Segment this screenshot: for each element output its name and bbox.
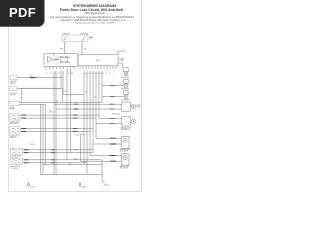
svg-text:DOOR LOCK: DOOR LOCK xyxy=(10,136,19,138)
svg-text:B: B xyxy=(47,73,48,75)
ground mark left xyxy=(28,183,30,187)
trunk wire x70.5 xyxy=(70,69,72,152)
svg-text:G204: G204 xyxy=(104,185,109,187)
wire color labels master sw mid xyxy=(73,115,78,118)
actuator R7 motor xyxy=(123,155,127,159)
svg-text:LO: LO xyxy=(62,73,64,75)
wires to actuator R5 xyxy=(96,119,122,124)
svg-text:SWITCH: SWITCH xyxy=(10,137,16,139)
fuse F1 xyxy=(64,37,67,40)
trunk wire x96 xyxy=(95,71,97,138)
wire color labels sliding sw xyxy=(24,150,29,153)
wire color label comp1 xyxy=(30,77,36,79)
svg-text:DOOR KEY: DOOR KEY xyxy=(122,89,130,91)
svg-text:PDF: PDF xyxy=(9,5,36,20)
trunk wire x56 xyxy=(55,71,57,175)
svg-text:W-B: W-B xyxy=(84,49,87,51)
trunk wire x54 xyxy=(53,71,55,175)
svg-text:G-B: G-B xyxy=(94,97,96,99)
svg-text:DOOR KEY: DOOR KEY xyxy=(122,100,130,102)
actuator R6 motor xyxy=(123,138,127,142)
svg-text:WL: WL xyxy=(51,73,53,75)
svg-text:LOCK SW: LOCK SW xyxy=(11,168,19,170)
wire to actuator R1 xyxy=(118,63,122,68)
wire fuse F1 down to relay xyxy=(64,42,66,54)
door key lock switch R3 circle xyxy=(124,95,128,99)
PDF badge xyxy=(0,0,45,27)
wire to actuator R2 xyxy=(102,85,124,87)
svg-text:C313: C313 xyxy=(49,112,53,114)
svg-text:FRONT DR: FRONT DR xyxy=(112,114,121,116)
wire color labels R4 R5 xyxy=(110,104,115,123)
wire color labels front sw mid xyxy=(73,128,78,131)
svg-text:Wednesday, December 15, 2004 1: Wednesday, December 15, 2004 11:43PM xyxy=(75,22,114,25)
trunk wire x90 xyxy=(89,71,91,155)
fuse block dashed box xyxy=(62,35,88,42)
svg-text:C204: C204 xyxy=(76,134,80,136)
door key lock switch R2 box xyxy=(124,80,129,84)
svg-text:SWITCH: SWITCH xyxy=(10,83,16,85)
component noise filter dashed box xyxy=(10,101,19,105)
svg-text:DOOR LOCK: DOOR LOCK xyxy=(117,51,126,53)
ground G204 wire xyxy=(101,160,103,180)
svg-text:G202: G202 xyxy=(31,187,35,189)
ground G204 symbol xyxy=(102,180,105,183)
door lock ECU box xyxy=(78,55,118,66)
svg-text:DOOR KEY: DOOR KEY xyxy=(122,77,130,79)
actuator R5 motor xyxy=(131,119,136,124)
svg-text:LB: LB xyxy=(68,73,70,75)
document page border xyxy=(9,0,142,192)
trunk wire x67 xyxy=(66,69,68,160)
component front door lock sw dashed box xyxy=(10,127,20,134)
wire color labels front sw xyxy=(22,128,27,131)
wire sliding sw lower xyxy=(22,152,93,154)
pin number labels relay xyxy=(47,69,73,71)
svg-text:GY: GY xyxy=(103,73,105,75)
relay switch arm xyxy=(53,54,59,62)
svg-text:LR: LR xyxy=(85,73,87,75)
svg-text:C205: C205 xyxy=(30,144,34,146)
wire master sw upper xyxy=(20,114,99,116)
svg-text:IGNITION: IGNITION xyxy=(10,81,17,83)
connector arrow right of fuse box xyxy=(89,36,92,38)
wire long horizontal y164.3 xyxy=(43,163,102,165)
master sw contacts xyxy=(12,115,20,119)
svg-text:ECU: ECU xyxy=(117,53,120,55)
svg-text:W-B: W-B xyxy=(68,163,71,165)
front sw contacts xyxy=(12,128,20,132)
ground mark center xyxy=(79,183,81,187)
wire color labels R7 xyxy=(110,155,116,161)
svg-text:F: F xyxy=(93,37,94,39)
sliding sw contacts xyxy=(13,150,21,154)
wires to actuator R7 xyxy=(81,155,122,161)
component back door sw dashed box xyxy=(11,158,23,164)
trunk wire x99 xyxy=(98,71,100,119)
component ignition switch dashed box xyxy=(10,76,17,80)
trunk wire x87 xyxy=(86,71,88,175)
wire color labels R4 mid xyxy=(74,104,78,109)
wire long y102 xyxy=(63,101,103,103)
wire color labels master sw xyxy=(22,115,27,118)
wire comp1 to trunk xyxy=(17,77,63,79)
wire to actuator R3 xyxy=(102,96,124,98)
trunk wire x84 xyxy=(83,71,85,164)
component sliding door sw dashed box xyxy=(11,149,23,155)
svg-text:WB: WB xyxy=(55,73,57,75)
wire color labels sliding sw mid xyxy=(51,150,55,153)
actuator R4 box xyxy=(122,102,131,111)
svg-text:GR: GR xyxy=(100,73,102,75)
door key lock switch R2 circle xyxy=(124,84,128,88)
component door lock master sw dashed box xyxy=(10,113,20,120)
wire master sw lower xyxy=(20,117,96,119)
wire fuse F2 down to ECU xyxy=(81,42,83,55)
svg-text:LOCK: LOCK xyxy=(120,60,124,62)
back sw contacts xyxy=(13,160,21,164)
wire front sw upper xyxy=(20,127,93,129)
wire color labels back sw xyxy=(24,160,29,163)
door key lock switch R3 box xyxy=(124,91,129,95)
component door control sw dashed box xyxy=(10,86,17,90)
svg-text:SWITCH: SWITCH xyxy=(10,95,16,97)
door key lock switch R1 circle xyxy=(124,72,128,76)
trunk wire x80 jog xyxy=(81,135,85,162)
wire bottom bus y174.6 xyxy=(41,174,103,176)
trunk wire x93 xyxy=(92,71,94,153)
wire color labels R2 R3 xyxy=(110,86,115,97)
trunk wire x61 xyxy=(60,71,62,88)
svg-text:G203: G203 xyxy=(82,187,86,189)
actuator R4 motor xyxy=(131,104,136,109)
fuse F2 xyxy=(82,37,85,40)
svg-text:KEY LOCK: KEY LOCK xyxy=(10,93,17,95)
junction block rectangle xyxy=(22,88,63,102)
pin number labels ECU xyxy=(81,69,116,71)
actuator R6 box xyxy=(121,137,129,149)
door key lock switch R1 box xyxy=(124,68,129,72)
svg-text:NOISE: NOISE xyxy=(10,107,15,109)
wires noise filter xyxy=(19,102,46,104)
svg-text:L-R: L-R xyxy=(85,92,87,94)
wires to actuator R4 xyxy=(54,104,122,109)
relay pins xyxy=(46,67,74,70)
svg-text:W-B: W-B xyxy=(74,149,77,151)
wire color labels under pins xyxy=(47,72,116,99)
door lock relay box xyxy=(44,54,78,67)
wire sliding sw upper xyxy=(22,149,93,151)
ECU pins xyxy=(80,66,116,69)
relay internal wires xyxy=(61,57,68,62)
actuator R7 box xyxy=(121,154,129,165)
svg-text:LY: LY xyxy=(114,72,116,74)
svg-text:LOCK SW: LOCK SW xyxy=(11,157,19,159)
wire comp2 to trunk xyxy=(17,87,61,89)
wire back sw upper xyxy=(22,159,102,161)
wires to actuator R6 xyxy=(93,138,121,144)
wire front sw lower xyxy=(20,131,90,133)
svg-text:BR: BR xyxy=(71,73,73,75)
svg-text:Copyright © 1998 Mitchell Repa: Copyright © 1998 Mitchell Repair Informa… xyxy=(60,19,126,22)
svg-text:W-B: W-B xyxy=(74,158,77,160)
relay contact row 2 xyxy=(61,61,71,63)
actuator R5 box xyxy=(122,117,131,126)
wire color labels R6 xyxy=(110,138,116,144)
trunk wire x63 xyxy=(62,71,64,94)
svg-text:RL: RL xyxy=(106,73,108,75)
svg-text:C312: C312 xyxy=(64,91,68,93)
relay contact row 1 xyxy=(61,56,71,58)
svg-text:LB: LB xyxy=(91,73,93,75)
relay driver triangle xyxy=(48,56,53,62)
svg-text:DOOR LOCK: DOOR LOCK xyxy=(10,122,19,124)
svg-text:BY: BY xyxy=(58,73,60,75)
wire color labels back sw mid xyxy=(51,160,55,163)
svg-text:LOCK: LOCK xyxy=(136,107,140,109)
wire back sw lower xyxy=(22,162,87,164)
page background xyxy=(0,0,149,198)
svg-text:GB: GB xyxy=(94,73,96,75)
trunk wire x102 xyxy=(101,71,103,102)
left trunk verticals xyxy=(41,104,46,174)
wire branch y94.3 xyxy=(63,93,84,95)
svg-text:RB: RB xyxy=(109,73,111,75)
